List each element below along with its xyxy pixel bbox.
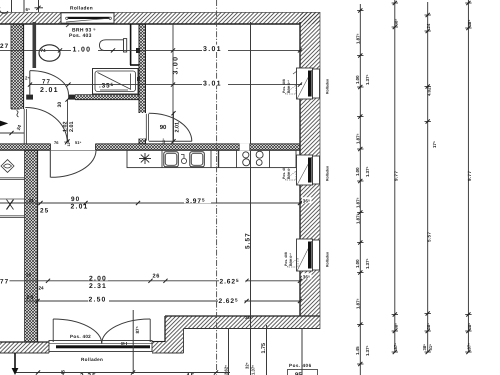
svg-text:Rolladen: Rolladen bbox=[326, 79, 330, 94]
interior dimension line x=250.5 lower bbox=[245, 151, 256, 375]
svg-text:Rolladen: Rolladen bbox=[326, 252, 330, 267]
dim line y=203 (90/2.01 + 3.97) bbox=[0, 196, 312, 215]
dim line y=84.6 (bath door 77 + kitchen 3.01) bbox=[25, 76, 302, 94]
vertical line x=228.5 with rotated label bbox=[223, 329, 228, 375]
svg-text:2.01: 2.01 bbox=[71, 204, 89, 211]
svg-text:9.77: 9.77 bbox=[467, 171, 472, 181]
svg-text:6⁵: 6⁵ bbox=[26, 7, 31, 12]
svg-text:1.00: 1.00 bbox=[73, 47, 92, 54]
kitchen double sink bbox=[164, 152, 205, 167]
wall: step block at bottom bbox=[165, 316, 184, 353]
wall: top exterior wall band bbox=[0, 12, 320, 24]
svg-text:76: 76 bbox=[54, 140, 59, 145]
shower tray bbox=[93, 69, 141, 95]
svg-text:87⁵: 87⁵ bbox=[467, 343, 472, 350]
svg-text:38⁵: 38⁵ bbox=[426, 323, 431, 330]
svg-text:Rolladen: Rolladen bbox=[70, 5, 93, 11]
svg-text:12⁵: 12⁵ bbox=[162, 138, 166, 144]
label BRH 93 / Pos. 403 bbox=[66, 24, 96, 40]
wash basin bbox=[39, 45, 60, 61]
svg-text:1.75: 1.75 bbox=[261, 343, 267, 354]
wall: right exterior wall band bbox=[300, 12, 320, 329]
margin dim line B x=394.8 bbox=[392, 0, 399, 354]
svg-text:36⁵: 36⁵ bbox=[303, 198, 310, 203]
svg-text:1.87⁵: 1.87⁵ bbox=[355, 298, 360, 309]
svg-text:38⁵: 38⁵ bbox=[393, 323, 398, 330]
hall vertical dim 1.02/2.01 x=67.5 bbox=[57, 98, 75, 147]
annotation W3: Pos. 408 + triangle bbox=[284, 252, 298, 267]
label box Pos. 406 bbox=[288, 329, 318, 375]
svg-text:26: 26 bbox=[153, 273, 160, 279]
svg-text:12⁵: 12⁵ bbox=[67, 141, 71, 147]
svg-text:9.77: 9.77 bbox=[394, 171, 399, 181]
svg-text:3.00: 3.00 bbox=[173, 56, 180, 75]
svg-text:3.01: 3.01 bbox=[203, 80, 222, 87]
wall: bottom band piece right of window bbox=[152, 342, 165, 354]
bathroom door swing bbox=[30, 71, 69, 95]
svg-text:87⁵: 87⁵ bbox=[393, 343, 398, 350]
kitchen counter row bbox=[127, 150, 296, 167]
svg-text:Pos. 403: Pos. 403 bbox=[69, 33, 92, 39]
svg-text:15: 15 bbox=[121, 342, 125, 346]
wall: kitchen/living band y=144 right part bbox=[96, 144, 301, 150]
toilet bbox=[100, 39, 127, 52]
svg-text:1.00: 1.00 bbox=[355, 167, 360, 176]
svg-text:1.00: 1.00 bbox=[355, 259, 360, 268]
svg-text:1.87⁵: 1.87⁵ bbox=[355, 133, 360, 144]
wall: upper-left exterior wall (cross-hatch) bbox=[11, 24, 24, 109]
svg-text:26: 26 bbox=[26, 273, 31, 278]
dark plumbing bar in bathroom bbox=[33, 22, 37, 68]
vertical dim 3.00 x=173 bbox=[173, 24, 180, 144]
svg-text:2.625: 2.625 bbox=[219, 297, 239, 305]
margin dim line C x=427.7 bbox=[422, 2, 437, 354]
kitchen door vertical dim 90/2.01 x=173.5 bbox=[160, 111, 181, 144]
svg-text:1.02: 1.02 bbox=[63, 122, 69, 133]
svg-text:87⁵: 87⁵ bbox=[135, 326, 140, 333]
margin dim line A x=360 bbox=[355, 4, 370, 375]
bottom dim line y=372.5 bbox=[15, 369, 230, 375]
svg-text:1.00: 1.00 bbox=[355, 75, 360, 84]
entry door (arc + leaf) bbox=[25, 108, 67, 143]
svg-text:2.01: 2.01 bbox=[174, 122, 180, 133]
wall: column piece below kitchen door bbox=[139, 139, 146, 145]
svg-text:5.57: 5.57 bbox=[426, 232, 431, 242]
svg-text:17⁵: 17⁵ bbox=[432, 141, 437, 148]
svg-text:27: 27 bbox=[0, 43, 9, 50]
svg-text:77: 77 bbox=[42, 78, 51, 85]
wall: bottom-right wall band bbox=[184, 316, 321, 329]
landing lines at left bbox=[0, 178, 24, 218]
wall: hall band y=144 left part bbox=[0, 144, 51, 150]
svg-text:45: 45 bbox=[61, 369, 66, 375]
svg-text:25: 25 bbox=[27, 295, 34, 301]
window W3 in right wall bbox=[297, 239, 320, 271]
svg-text:2.31: 2.31 bbox=[89, 283, 107, 290]
svg-text:4.02⁵: 4.02⁵ bbox=[426, 85, 431, 96]
french door window (bottom): sill box bbox=[49, 341, 152, 352]
svg-text:2.62⁵: 2.62⁵ bbox=[223, 365, 228, 375]
svg-text:1.87⁵: 1.87⁵ bbox=[355, 33, 360, 44]
hook symbol below left wall bbox=[17, 111, 19, 118]
svg-text:1.37⁵: 1.37⁵ bbox=[365, 258, 370, 269]
svg-text:Rolladen: Rolladen bbox=[81, 357, 103, 362]
svg-text:2.50: 2.50 bbox=[89, 297, 107, 304]
toilet niche wall bbox=[130, 24, 139, 65]
svg-text:38⁵: 38⁵ bbox=[467, 20, 472, 27]
kitchen door (leaf + swing) bbox=[146, 113, 192, 141]
star symbol (lamp) in counter bbox=[139, 153, 151, 164]
vertical line x=266.5 with 1.75 bbox=[261, 325, 267, 375]
window W1 in right wall bbox=[297, 68, 320, 99]
short dim line at hall entry bbox=[0, 131, 24, 135]
svg-text:1.37⁵: 1.37⁵ bbox=[365, 166, 370, 177]
french door left leaf + arc bbox=[53, 319, 101, 344]
svg-text:25: 25 bbox=[40, 208, 49, 215]
svg-text:24: 24 bbox=[426, 23, 431, 28]
annotation W2: Pos. 408 + triangle bbox=[282, 157, 297, 180]
svg-text:36⁵: 36⁵ bbox=[245, 315, 252, 320]
wall: bathroom bottom band bbox=[26, 95, 139, 100]
dim line y=301 (2.50/2.62) bbox=[26, 295, 303, 305]
hall west wall thin lines bbox=[24, 109, 26, 144]
svg-text:24: 24 bbox=[29, 198, 34, 203]
svg-text:90: 90 bbox=[71, 196, 80, 203]
center line (dash-dot) bbox=[216, 0, 218, 375]
svg-text:38⁵: 38⁵ bbox=[393, 19, 398, 26]
cooktop 4 circles bbox=[243, 151, 263, 166]
svg-text:24: 24 bbox=[16, 124, 23, 131]
svg-text:90: 90 bbox=[160, 124, 167, 131]
wall: bathroom right column (cross-hatch) bbox=[139, 24, 146, 113]
svg-text:1.37⁵: 1.37⁵ bbox=[365, 345, 370, 356]
wall band break at x=239-250 bbox=[239, 143, 250, 150]
wall: bottom-left wall band bbox=[0, 342, 49, 353]
dim line y=50.4 (bath + kitchen 3.01) bbox=[0, 43, 302, 53]
room divider line x=250.5 upper bbox=[250, 22, 252, 144]
svg-text:Pos. 406: Pos. 406 bbox=[289, 363, 312, 368]
svg-text:51⁵: 51⁵ bbox=[75, 140, 81, 145]
svg-text:5.57: 5.57 bbox=[245, 232, 252, 249]
svg-text:1.87⁵: 1.87⁵ bbox=[355, 213, 360, 224]
svg-text:1.45: 1.45 bbox=[355, 346, 360, 355]
french door right leaf + arc bbox=[102, 319, 151, 344]
svg-text:2.01: 2.01 bbox=[69, 122, 75, 133]
window W2 in right wall bbox=[297, 155, 320, 185]
svg-text:32⁵: 32⁵ bbox=[245, 362, 250, 369]
svg-text:1.37⁵: 1.37⁵ bbox=[251, 365, 256, 375]
svg-text:1.87⁵: 1.87⁵ bbox=[355, 197, 360, 208]
eye/diamond symbol bbox=[1, 160, 14, 173]
window W-top in top wall bbox=[61, 13, 114, 23]
svg-text:38⁵: 38⁵ bbox=[467, 323, 472, 330]
svg-text:30: 30 bbox=[57, 102, 63, 108]
hall to living-room door (leaf + swing) bbox=[50, 150, 96, 177]
svg-text:Pos. 408: Pos. 408 bbox=[284, 252, 288, 266]
section mark bottom-left bbox=[12, 353, 19, 375]
vertical line x=133.2 with 87.5 bbox=[133, 310, 251, 374]
svg-text:3.975: 3.975 bbox=[186, 198, 206, 206]
ticks above top wall bbox=[0, 0, 43, 13]
entry arrow bbox=[0, 121, 22, 131]
margin dim line D x=468.4 bbox=[465, 0, 472, 354]
svg-text:Rolladen: Rolladen bbox=[326, 166, 330, 181]
dim line y=280.8 (2.00/2.31/26/2.62) bbox=[0, 273, 312, 291]
svg-text:1.37⁵: 1.37⁵ bbox=[365, 74, 370, 85]
svg-text:Pos. 402: Pos. 402 bbox=[70, 334, 91, 339]
svg-text:38⁵: 38⁵ bbox=[422, 344, 427, 351]
svg-text:95: 95 bbox=[295, 372, 302, 375]
micro dimension labels above living room door bbox=[54, 140, 81, 146]
annotation W1: Pos. 408 + triangle bbox=[282, 71, 297, 94]
svg-text:2.00: 2.00 bbox=[89, 275, 107, 282]
svg-text:24: 24 bbox=[39, 285, 45, 290]
svg-text:2.625: 2.625 bbox=[220, 278, 240, 286]
svg-text:Pos. 408: Pos. 408 bbox=[282, 79, 286, 93]
svg-text:51⁵: 51⁵ bbox=[428, 344, 433, 351]
wall: lower-left exterior wall (cross-hatch) bbox=[25, 150, 38, 342]
svg-text:2.01: 2.01 bbox=[40, 87, 59, 94]
svg-text:77: 77 bbox=[0, 279, 9, 286]
svg-text:36⁵: 36⁵ bbox=[303, 274, 310, 279]
svg-text:2⁴: 2⁴ bbox=[25, 76, 30, 81]
svg-text:3.01: 3.01 bbox=[203, 46, 222, 53]
